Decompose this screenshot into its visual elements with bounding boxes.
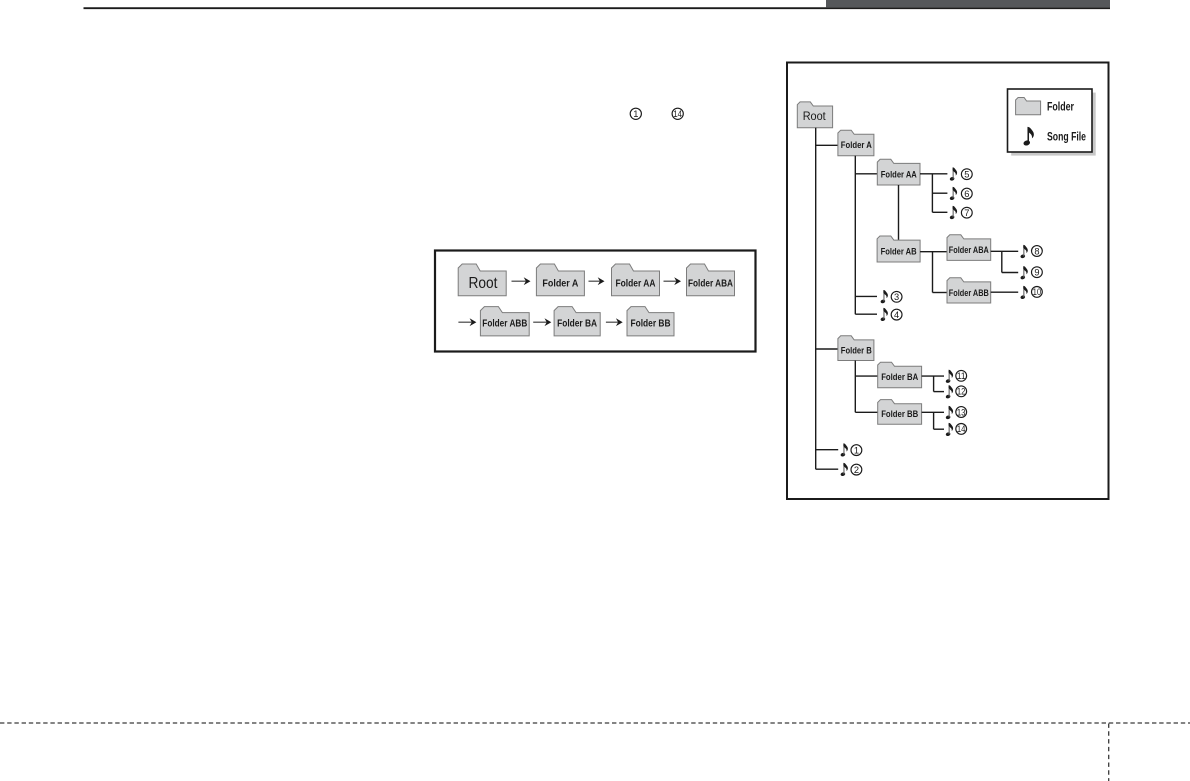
svg-text:Folder BA: Folder BA: [881, 372, 918, 383]
song-file note 3: [880, 290, 888, 304]
flow folder ABB: [480, 307, 529, 336]
footer dashed rule vertical: [1108, 724, 1110, 781]
svg-text:Folder ABB: Folder ABB: [949, 288, 989, 299]
tree folder ABB: [947, 278, 991, 303]
song-file note 11: [945, 370, 953, 384]
svg-text:2: 2: [854, 465, 859, 475]
svg-text:Folder BB: Folder BB: [631, 318, 671, 330]
wire to Folder B: [816, 348, 839, 350]
wire Folder A vertical: [854, 156, 856, 314]
svg-text:Folder BB: Folder BB: [881, 409, 918, 420]
flow folder A: [536, 264, 584, 296]
legend song-file note icon: [1023, 127, 1034, 147]
flow folder BB: [627, 307, 674, 336]
svg-text:Folder AA: Folder AA: [881, 169, 917, 180]
track number 10: [1032, 287, 1043, 298]
song-file note 6: [949, 187, 957, 201]
wire AB children vertical: [932, 252, 934, 293]
flow folder ABA: [687, 264, 735, 296]
wire to song 12: [934, 391, 944, 393]
wire to song 14: [934, 428, 944, 430]
tree folder B: [838, 336, 874, 361]
svg-text:Root: Root: [803, 111, 827, 123]
footer dashed rule horizontal: [0, 722, 1190, 724]
wire to Folder ABA: [920, 251, 947, 253]
wire to Folder BB: [855, 411, 878, 413]
tree folder BB: [878, 400, 922, 425]
track number 8: [1032, 246, 1043, 257]
svg-text:7: 7: [964, 208, 969, 218]
song-file note 2: [840, 463, 848, 477]
song-file note 4: [880, 308, 888, 322]
song-file note 10: [1020, 286, 1028, 300]
wire to Folder ABB: [933, 292, 948, 294]
arrow Folder A to Folder AA: [589, 277, 605, 285]
track number 12: [956, 386, 967, 397]
track number 9: [1032, 267, 1043, 278]
svg-text:6: 6: [964, 189, 969, 199]
tree folder BA: [878, 362, 922, 388]
circled number 14 (text reference): [672, 108, 683, 119]
wire to song 6: [932, 192, 947, 194]
song-file note 8: [1020, 245, 1028, 259]
tree folder ABA: [947, 235, 991, 261]
svg-text:Folder AA: Folder AA: [616, 277, 656, 289]
wire BB songs vertical: [933, 412, 935, 429]
svg-text:4: 4: [894, 310, 899, 320]
circled number 1 (text reference): [630, 108, 641, 119]
arrow wrap to Folder ABB: [458, 318, 476, 326]
svg-text:3: 3: [894, 292, 899, 302]
svg-text:1: 1: [633, 109, 638, 119]
flow folder AA: [612, 264, 660, 296]
svg-text:1: 1: [854, 445, 859, 455]
svg-text:Root: Root: [469, 275, 499, 292]
track number 3: [891, 291, 902, 302]
song-file note 13: [945, 406, 953, 420]
svg-text:Song File: Song File: [1047, 132, 1086, 144]
svg-text:Folder A: Folder A: [542, 277, 578, 289]
wire to song 4: [855, 313, 877, 315]
wire to song 2: [816, 468, 839, 470]
wire to song 9: [1002, 272, 1018, 274]
arrow Folder BA to Folder BB: [606, 318, 623, 326]
svg-text:Folder ABA: Folder ABA: [688, 277, 733, 289]
wire to song 11: [922, 375, 944, 377]
svg-text:Folder ABA: Folder ABA: [949, 245, 989, 256]
svg-text:14: 14: [673, 109, 682, 119]
wire to song 7: [932, 211, 947, 213]
track number 1: [851, 445, 862, 456]
wire to song 1: [816, 449, 839, 451]
wire to song 8: [991, 250, 1019, 252]
svg-text:9: 9: [1034, 268, 1039, 278]
flow folder Root: [458, 264, 506, 296]
svg-text:Folder BA: Folder BA: [557, 318, 597, 330]
song-file note 12: [945, 385, 953, 399]
wire AA songs vertical: [931, 174, 933, 213]
svg-text:Folder: Folder: [1047, 102, 1074, 114]
track number 2: [851, 464, 862, 475]
wire to Folder A: [816, 144, 839, 146]
track number 4: [891, 309, 902, 320]
track number 7: [961, 207, 972, 218]
legend folder icon: [1016, 98, 1041, 115]
wire to song 5: [920, 173, 947, 175]
svg-text:Folder A: Folder A: [841, 140, 872, 151]
tree folder AA: [877, 159, 920, 185]
wire Folder B vertical: [854, 361, 856, 413]
wire to song 10: [991, 291, 1019, 293]
svg-text:8: 8: [1034, 246, 1039, 256]
tree folder A: [838, 130, 874, 156]
header chapter tab bar: [826, 0, 1110, 7]
svg-text:5: 5: [964, 170, 969, 180]
svg-text:Folder ABB: Folder ABB: [482, 318, 527, 330]
tree folder Root: [797, 102, 832, 128]
wire BA songs vertical: [933, 376, 935, 392]
header rule: [84, 7, 1111, 9]
song-file note 7: [949, 206, 957, 220]
tree diagram box: [787, 63, 1109, 500]
track number 6: [961, 188, 972, 199]
wire to song 3: [855, 295, 877, 297]
wire to song 13: [922, 411, 944, 413]
wire root vertical: [815, 128, 817, 470]
flow diagram box: [435, 251, 756, 352]
wire to Folder AA: [855, 173, 877, 175]
arrow Root to Folder A: [512, 277, 531, 285]
flow folder BA: [554, 307, 600, 336]
wire to Folder BA: [855, 375, 878, 377]
track number 13: [956, 407, 967, 418]
track number 14: [956, 424, 967, 435]
song-file note 1: [840, 443, 848, 457]
svg-text:Folder B: Folder B: [841, 345, 872, 356]
wire Folder AA down to Folder AB: [898, 185, 900, 240]
song-file note 5: [949, 167, 957, 181]
song-file note 9: [1020, 266, 1028, 280]
track number 11: [956, 370, 967, 381]
svg-text:Folder AB: Folder AB: [881, 246, 917, 257]
legend box shadow: [1011, 93, 1095, 156]
arrow Folder AA to Folder ABA: [664, 277, 682, 285]
tree folder AB: [877, 236, 920, 262]
track number 5: [961, 169, 972, 180]
legend box: [1008, 89, 1093, 152]
arrow Folder ABB to Folder BA: [533, 318, 551, 326]
song-file note 14: [945, 423, 953, 437]
wire ABA songs vertical: [1001, 251, 1003, 272]
